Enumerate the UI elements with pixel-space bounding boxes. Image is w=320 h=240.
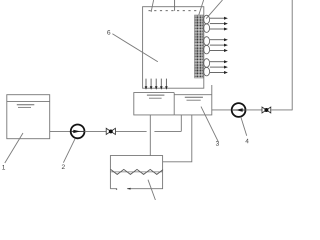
level marks right chamber — [185, 96, 203, 98]
drain basin right chamber to tank 5 side — [163, 115, 192, 162]
basin right chamber — [174, 85, 212, 115]
leader line (cut) vertical to header — [174, 0, 176, 11]
leader line (cut) to spray header — [151, 0, 154, 12]
label 1 — [2, 165, 5, 169]
bubble ellipse chain group 3 — [204, 59, 210, 76]
spray header (dashed) — [149, 10, 197, 12]
downcomer basin left chamber to tank 5 — [149, 115, 151, 156]
leader 5 (label cut off) — [148, 180, 155, 200]
pipe valve to crossing — [116, 130, 147, 132]
basin divider — [173, 93, 175, 115]
riser into basin right chamber — [180, 115, 182, 131]
valve V4 — [262, 107, 271, 113]
leader 2 — [63, 138, 75, 162]
pipe tank1 to pump2 — [50, 130, 71, 132]
pipe pump2 to valve — [84, 130, 106, 132]
riser to top (cut) — [291, 0, 293, 110]
level marks left chamber — [147, 94, 165, 96]
level marks tank 1 — [17, 104, 35, 106]
discharge arrows group 3 — [210, 62, 224, 73]
label 4 — [245, 139, 248, 143]
label 2 — [62, 164, 65, 169]
packing strip (dotted) — [195, 15, 204, 78]
leader 6 — [112, 34, 157, 62]
coil baseline in tank 5 — [110, 171, 162, 173]
outlet pipe basin to pump 4 — [212, 109, 232, 111]
discharge arrows group 1 — [210, 18, 224, 29]
heat-exchange tank 5 — [110, 156, 162, 189]
tank 1 lid line — [7, 100, 50, 102]
leader 3 — [201, 107, 218, 142]
falling spray arrows inside tower — [146, 79, 166, 87]
leader line (cut) to packing strip — [198, 0, 203, 16]
feed tank 1 — [7, 95, 50, 139]
pump P4 — [232, 103, 246, 117]
discharge arrows group 2 — [210, 40, 224, 51]
tank 5 bottom gap tick — [116, 189, 117, 190]
spray tower 6 body — [143, 7, 204, 89]
tank 5 bottom gap arrowhead — [127, 188, 131, 190]
leader line (cut) to ellipse chain — [206, 0, 222, 19]
bubble ellipse chain group 2 — [204, 37, 210, 54]
label 3 — [216, 141, 219, 146]
pump P2 — [71, 124, 85, 138]
pipe valve4 to riser — [271, 109, 292, 111]
leader 4 — [241, 117, 247, 136]
coil zigzag in tank 5 — [111, 169, 163, 174]
pipe crossing gap then riser into basin right chamber — [154, 130, 181, 132]
collection basin left chamber 3 — [134, 93, 174, 115]
label 6 — [107, 30, 110, 35]
leader 1 — [5, 133, 23, 163]
pipe pump4 to valve4 — [245, 109, 262, 111]
bubble ellipse chain group 1 — [204, 15, 210, 32]
valve V1 — [106, 128, 115, 134]
